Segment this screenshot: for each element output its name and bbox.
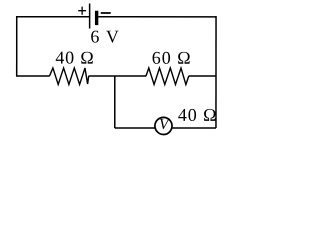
svg-text:60 Ω: 60 Ω (152, 48, 191, 68)
battery polarity - sign (101, 12, 111, 14)
resistor R1 zigzag (49, 68, 88, 85)
wire middle-center segment (89, 75, 147, 77)
wire top-left segment (17, 16, 90, 18)
battery B1 negative plate (short thick) (95, 11, 98, 25)
wire left vertical (16, 16, 18, 76)
resistor R2 zigzag (146, 68, 189, 85)
battery B1 positive plate (long) (89, 3, 91, 28)
svg-text:40 Ω: 40 Ω (178, 105, 217, 125)
battery polarity + sign (78, 7, 86, 15)
wire middle-right segment (189, 75, 216, 77)
wire bottom-left segment (115, 127, 160, 129)
wire middle-left segment (16, 75, 50, 77)
wire right vertical (215, 16, 217, 128)
wire junction vertical (node to bottom branch) (114, 76, 116, 128)
svg-text:6 V: 6 V (90, 26, 119, 46)
voltmeter V1 circle (155, 117, 172, 134)
wire bottom-right segment (165, 127, 216, 129)
svg-text:40 Ω: 40 Ω (55, 48, 94, 68)
wire top-right segment (98, 16, 216, 18)
svg-text:V: V (159, 116, 170, 133)
